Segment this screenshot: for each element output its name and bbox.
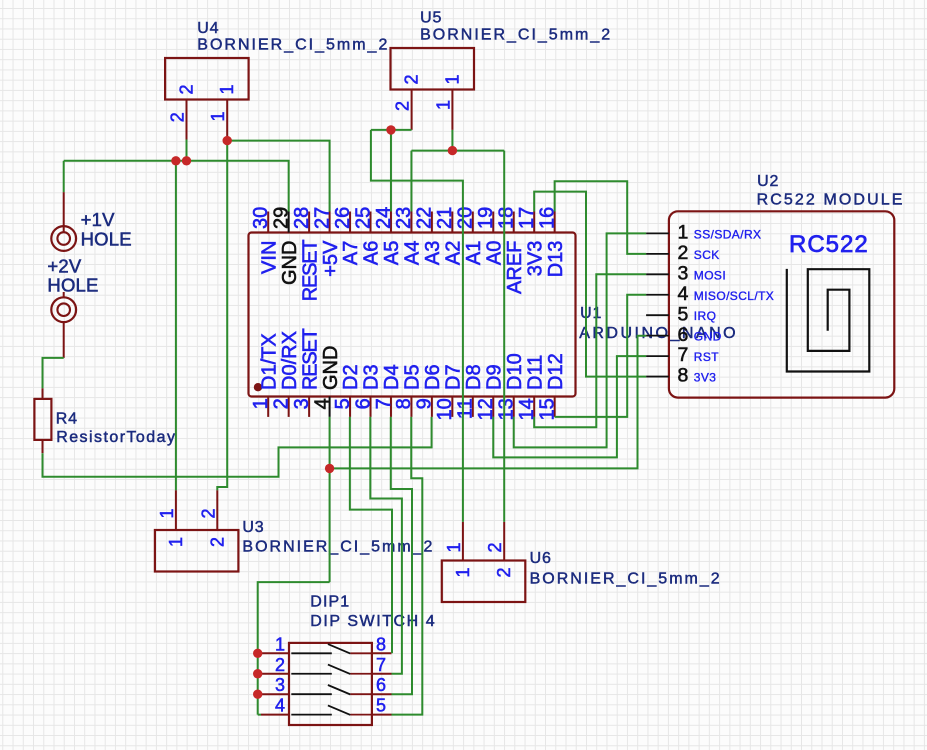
- wire U4 pin1 down to U3 pin2: [217, 141, 227, 491]
- svg-text:4: 4: [275, 696, 285, 716]
- wire U5 pin1 run: [411, 150, 504, 152]
- svg-text:3: 3: [275, 675, 285, 695]
- wire U3 pin1 vertical: [175, 161, 177, 490]
- wire D3 to DIP1 pin7: [370, 417, 402, 674]
- junction at U5 pin1 net: [448, 146, 457, 155]
- svg-text:RC522: RC522: [789, 231, 869, 258]
- svg-text:4: 4: [678, 283, 689, 305]
- hole +2V label: [47, 256, 98, 296]
- svg-text:D5: D5: [402, 364, 424, 390]
- svg-text:4: 4: [311, 398, 333, 409]
- wire D13 to U2 pin2: [555, 181, 646, 254]
- svg-text:A0: A0: [483, 241, 505, 265]
- junction at GND net: [325, 464, 334, 473]
- switch DIP1 body: [289, 643, 372, 725]
- svg-text:HOLE: HOLE: [81, 228, 132, 249]
- svg-text:U3: U3: [242, 519, 264, 536]
- svg-text:8: 8: [393, 398, 415, 409]
- svg-text:DIP SWITCH 4: DIP SWITCH 4: [310, 613, 436, 630]
- svg-text:1: 1: [166, 537, 186, 547]
- svg-text:1: 1: [433, 100, 453, 110]
- wire DIP1 pin4 join: [258, 714, 261, 716]
- U2 pin numbers 1-8: [678, 222, 689, 387]
- svg-text:+5V: +5V: [320, 240, 342, 277]
- svg-text:5: 5: [678, 303, 689, 325]
- DIP1 left pin numbers 1-4: [275, 634, 285, 715]
- svg-text:ResistorToday: ResistorToday: [56, 429, 176, 446]
- svg-text:25: 25: [352, 207, 374, 229]
- wire GND to U2 pin6: [330, 336, 647, 469]
- svg-text:A4: A4: [402, 241, 424, 265]
- svg-text:20: 20: [455, 207, 477, 229]
- wire +2V to R4: [43, 358, 64, 388]
- wire to U1 pin24: [390, 130, 392, 212]
- svg-text:SS/SDA/RX: SS/SDA/RX: [694, 227, 762, 241]
- svg-text:DIP1: DIP1: [310, 594, 350, 611]
- svg-text:D12: D12: [545, 353, 567, 390]
- wire horizontal to U1 pin29: [64, 161, 289, 212]
- svg-text:U4: U4: [197, 20, 219, 37]
- wire U5 pin1 drop: [451, 130, 453, 151]
- svg-text:D1/TX: D1/TX: [258, 333, 280, 390]
- svg-text:BORNIER_CI_5mm_2: BORNIER_CI_5mm_2: [197, 36, 389, 53]
- svg-text:2: 2: [177, 84, 197, 94]
- svg-text:3: 3: [678, 262, 689, 284]
- svg-text:5: 5: [332, 398, 354, 409]
- wire U5 pin1 horizontal: [410, 151, 412, 212]
- wire +1V hole vertical: [63, 161, 65, 192]
- U4 pin1 stub: [226, 100, 228, 141]
- wire GND to DIP1: [258, 582, 330, 715]
- svg-text:RST: RST: [694, 350, 719, 364]
- U6 pin1 stub: [462, 522, 464, 561]
- svg-text:U1: U1: [580, 305, 602, 322]
- svg-text:2: 2: [168, 112, 188, 122]
- svg-text:7: 7: [373, 398, 395, 409]
- svg-text:18: 18: [496, 207, 518, 229]
- svg-text:10: 10: [434, 398, 456, 420]
- U4 pin2 stub: [186, 100, 188, 140]
- DIP1 switch levers: [291, 644, 372, 715]
- wire D12 to U2 pin4: [555, 295, 646, 417]
- wire D11 to U2 pin3: [534, 274, 646, 427]
- junction at U4 pin2 net: [182, 156, 191, 165]
- wire DIP1 pin1 join: [258, 652, 261, 654]
- wire D10 to U2 pin1: [514, 233, 646, 447]
- U5 pin1 stub: [451, 90, 453, 130]
- U3 pin1 stub: [175, 490, 177, 530]
- U1 top pin stubs (pins 30-16): [268, 212, 554, 233]
- wire DIP1 pin3 join: [258, 693, 261, 695]
- svg-text:D0/RX: D0/RX: [279, 331, 301, 390]
- junction DIP1 pin2: [253, 669, 262, 678]
- U5 pin2 stub: [411, 90, 413, 130]
- svg-text:D2: D2: [340, 364, 362, 390]
- DIP1 right pin numbers 8-5: [376, 634, 386, 715]
- U1 bottom pin numbers 1-15: [250, 398, 558, 420]
- svg-text:GND: GND: [694, 330, 722, 344]
- wire DIP1 pin2 join: [258, 673, 261, 675]
- svg-text:2: 2: [402, 74, 422, 84]
- svg-text:BORNIER_CI_5mm_2: BORNIER_CI_5mm_2: [242, 539, 434, 556]
- svg-text:2: 2: [198, 508, 218, 518]
- svg-text:D8: D8: [463, 364, 485, 390]
- hole +1V symbol: [51, 226, 76, 251]
- svg-text:IRQ: IRQ: [694, 309, 717, 323]
- svg-text:5: 5: [376, 696, 386, 716]
- U1 pin1 marker dot: [254, 383, 262, 391]
- hole +2V pin stub bottom: [63, 321, 65, 358]
- svg-text:1: 1: [157, 508, 177, 518]
- svg-text:D11: D11: [524, 355, 546, 390]
- svg-text:1: 1: [217, 84, 237, 94]
- U2 antenna spiral: [787, 269, 870, 372]
- svg-text:D13: D13: [545, 241, 567, 278]
- U1 bottom pin names: [258, 328, 566, 390]
- hole +2V pin stub top: [63, 292, 65, 298]
- svg-text:D4: D4: [381, 364, 403, 390]
- svg-text:26: 26: [332, 207, 354, 229]
- svg-text:1: 1: [275, 634, 285, 654]
- svg-text:AREF: AREF: [504, 241, 526, 294]
- DIP1 pin stubs: [261, 653, 392, 714]
- junction DIP1 pin3: [253, 690, 262, 699]
- svg-text:3: 3: [291, 398, 313, 409]
- hole +1V label: [81, 209, 132, 249]
- svg-text:21: 21: [434, 207, 456, 229]
- wire D2 to DIP1 pin8: [350, 417, 392, 653]
- svg-text:7: 7: [376, 655, 386, 675]
- wire D5 to DIP1 pin5: [392, 417, 423, 715]
- svg-text:GND: GND: [320, 346, 342, 390]
- wire U4 pin1 to +5V pin27: [227, 141, 329, 212]
- U1 top pin numbers 30-16: [250, 207, 558, 229]
- svg-text:1: 1: [453, 567, 473, 577]
- wire R4 to D6: [43, 417, 432, 477]
- svg-text:D9: D9: [483, 364, 505, 390]
- U1 top pin names: [258, 240, 566, 302]
- svg-text:1: 1: [208, 111, 228, 121]
- svg-text:28: 28: [291, 207, 313, 229]
- svg-text:2: 2: [393, 101, 413, 111]
- svg-text:U2: U2: [757, 173, 779, 190]
- svg-text:6: 6: [678, 324, 689, 346]
- U2 pin names: [694, 227, 774, 384]
- resistor R4 bottom pin stub: [42, 440, 44, 453]
- svg-text:RESET: RESET: [299, 240, 321, 302]
- svg-text:9: 9: [414, 398, 436, 409]
- svg-text:3V3: 3V3: [524, 241, 546, 277]
- svg-text:2: 2: [494, 567, 514, 577]
- svg-text:A6: A6: [361, 241, 383, 265]
- wire GND vertical: [329, 417, 331, 582]
- IC U2 body (RC522 MODULE): [669, 211, 894, 397]
- svg-text:1: 1: [444, 542, 464, 552]
- resistor R4 top pin stub: [42, 388, 44, 399]
- svg-text:1: 1: [678, 222, 689, 244]
- svg-text:6: 6: [376, 675, 386, 695]
- svg-text:1: 1: [250, 398, 272, 409]
- wire U5 pin1 to U6 pin2: [503, 151, 505, 522]
- svg-text:A3: A3: [422, 241, 444, 265]
- svg-text:+1V: +1V: [81, 209, 115, 230]
- svg-text:19: 19: [475, 207, 497, 229]
- svg-text:8: 8: [678, 365, 689, 387]
- svg-text:1: 1: [442, 74, 462, 84]
- svg-text:RC522 MODULE: RC522 MODULE: [757, 192, 905, 209]
- wire 3V3 to U2 pin8: [534, 192, 646, 377]
- svg-text:MOSI: MOSI: [694, 268, 726, 282]
- connector U5 body: [391, 48, 475, 90]
- U3 pin2 stub: [216, 490, 218, 530]
- svg-text:MISO/SCL/TX: MISO/SCL/TX: [694, 289, 774, 303]
- junction at U4 pin1: [223, 136, 232, 145]
- resistor R4 body: [34, 399, 51, 440]
- svg-text:2: 2: [207, 537, 227, 547]
- wire U5 pin2 to U6 pin1: [371, 130, 463, 522]
- connector U4 body: [165, 58, 249, 100]
- svg-text:U6: U6: [530, 550, 552, 567]
- svg-text:11: 11: [455, 398, 477, 419]
- svg-text:2: 2: [678, 242, 689, 264]
- svg-text:GND: GND: [279, 241, 301, 285]
- svg-text:D10: D10: [504, 353, 526, 390]
- svg-text:3V3: 3V3: [694, 371, 717, 385]
- wire D9 to U2 pin7: [493, 356, 646, 457]
- svg-text:RESET: RESET: [299, 328, 321, 390]
- svg-text:BORNIER_CI_5mm_2: BORNIER_CI_5mm_2: [530, 571, 722, 588]
- svg-text:2: 2: [275, 655, 285, 675]
- svg-text:2: 2: [485, 542, 505, 552]
- svg-text:30: 30: [250, 207, 272, 229]
- svg-text:U5: U5: [420, 9, 442, 26]
- junction at U5 pin2 net: [386, 125, 395, 134]
- hole +1V pin stub: [63, 192, 65, 233]
- IC U1 body (ARDUINO_NANO): [249, 233, 576, 397]
- connector U6 body: [442, 561, 526, 603]
- wire U4 pin2 drop: [186, 140, 188, 161]
- svg-text:BORNIER_CI_5mm_2: BORNIER_CI_5mm_2: [420, 27, 612, 44]
- svg-text:A1: A1: [463, 241, 485, 265]
- svg-text:D3: D3: [361, 364, 383, 390]
- svg-text:6: 6: [352, 398, 374, 409]
- U2 pin stubs (pins 1-8): [646, 233, 669, 376]
- svg-text:SCK: SCK: [694, 248, 720, 262]
- connector U3 body: [155, 530, 239, 572]
- svg-text:VIN: VIN: [258, 241, 280, 274]
- svg-text:HOLE: HOLE: [47, 274, 98, 295]
- svg-text:22: 22: [414, 207, 436, 229]
- svg-text:D6: D6: [422, 364, 444, 390]
- svg-text:2: 2: [270, 398, 292, 409]
- svg-text:A2: A2: [443, 241, 465, 265]
- wire U5 pin2 horizontal: [371, 129, 412, 131]
- svg-text:8: 8: [376, 634, 386, 654]
- junction DIP1 pin1: [253, 649, 262, 658]
- U1 bottom pin stubs (pins 1-15): [268, 397, 554, 417]
- svg-text:7: 7: [678, 344, 689, 366]
- junction at U3 pin1 net: [171, 156, 180, 165]
- svg-text:D7: D7: [443, 364, 465, 390]
- svg-text:A7: A7: [340, 241, 362, 265]
- hole +2V symbol: [51, 297, 76, 322]
- wire D4 to DIP1 pin6: [391, 417, 412, 694]
- svg-text:R4: R4: [56, 411, 78, 428]
- U6 pin2 stub: [503, 522, 505, 561]
- svg-text:A5: A5: [381, 241, 403, 265]
